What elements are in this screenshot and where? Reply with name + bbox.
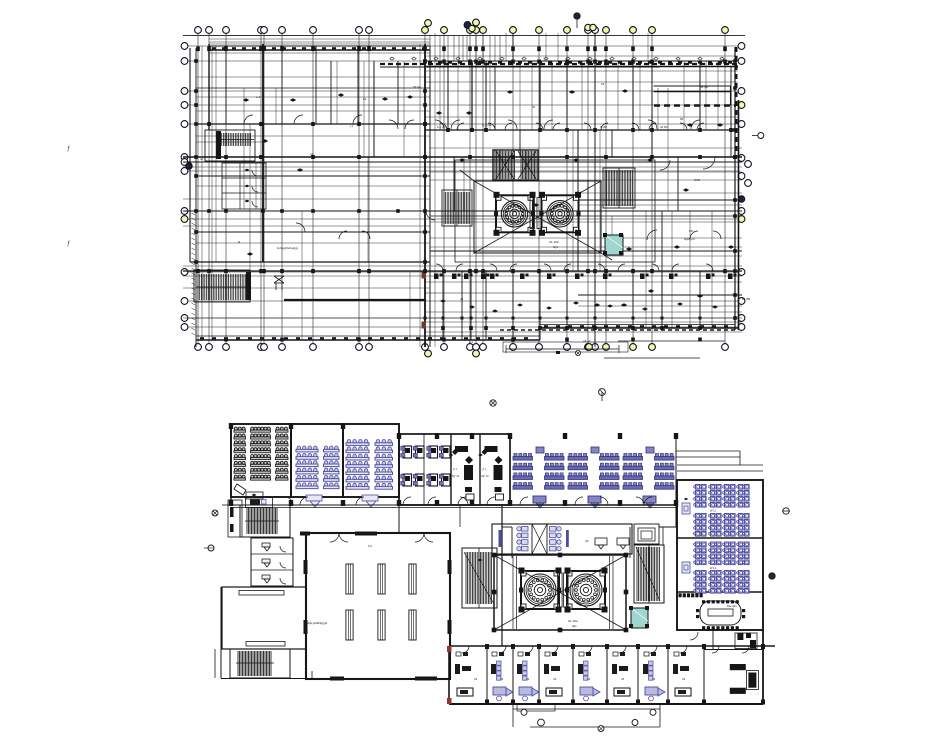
bottom office furniture (455, 652, 691, 701)
svg-text:q1: q1 (310, 152, 314, 156)
isolated survey symbol mid-left (490, 400, 496, 406)
top plan group (181, 13, 764, 358)
lecture hall seat rows (234, 427, 288, 480)
right wing rooms outline (676, 434, 763, 630)
classroom B outline (343, 424, 399, 497)
svg-text:c2: c2 (200, 157, 203, 161)
central escalator block (493, 150, 538, 180)
dashed infill wall corridor (500, 329, 738, 331)
upper-left annex rooms (222, 424, 273, 532)
top plan outer and main walls (190, 44, 739, 347)
svg-text:ksMgk·jp9M4g(g)d: ksMgk·jp9M4g(g)d (304, 621, 328, 625)
dashed window wall right edge vertical (736, 47, 738, 156)
bottom stair east of atrium (634, 545, 664, 603)
svg-text:q5 j60: q5 j60 (660, 125, 668, 129)
stair S4 atrium east (603, 168, 635, 208)
top plan interior horizontal walls (183, 67, 742, 318)
conference back seat row (679, 593, 703, 597)
bottom atrium frame verticals (513, 556, 613, 629)
teal shaft bottom plan (629, 606, 649, 628)
atrium rectangle with cross (460, 170, 612, 260)
bottom atrium rect with cross (492, 553, 629, 633)
classroom D desks (568, 447, 619, 508)
top plan south wing room partitions (183, 266, 742, 340)
svg-text:W 12: W 12 (710, 566, 717, 570)
classroom A outline (291, 424, 343, 497)
svg-text:9g1: 9g1 (572, 624, 577, 628)
svg-text:ƒ: ƒ (67, 146, 70, 152)
svg-text:p9 q2: p9 q2 (583, 339, 591, 343)
porch below offices (513, 704, 660, 732)
left annex room with benches (222, 587, 306, 649)
svg-text:jƒ·1: jƒ·1 (452, 468, 458, 471)
svg-text:x8: x8 (460, 297, 464, 301)
classroom A teacher desk (306, 495, 322, 507)
big hall tables (346, 564, 416, 640)
funnel symbol left wing (274, 276, 284, 290)
svg-text:t5 j60: t5 j60 (600, 125, 607, 129)
south wing fixtures row (422, 272, 737, 329)
svg-text:b8 j40: b8 j40 (700, 85, 709, 89)
svg-text:Uß: Uß (526, 678, 530, 681)
top symbol marker (574, 13, 580, 19)
svg-text:a·1: a·1 (256, 95, 261, 99)
svg-text:W/M: W/M (694, 178, 701, 182)
classroom E desks (623, 447, 674, 508)
classroom A benches (296, 446, 339, 489)
svg-text:6gMg·m: 6gMg·m (684, 237, 696, 241)
svg-text:A1 18a: A1 18a (568, 619, 578, 623)
door arcs top plan (244, 115, 721, 240)
stair S3 atrium west (442, 190, 472, 226)
svg-text:b5: b5 (532, 105, 536, 109)
classroom B teacher desk (362, 495, 378, 507)
section marker mid (599, 389, 606, 396)
svg-text:Uß: Uß (621, 678, 625, 681)
svg-text:Uß: Uß (474, 678, 478, 681)
lecture hall outline (231, 424, 291, 497)
svg-text:A1 18a: A1 18a (549, 240, 559, 244)
top plan thin horizontal grid lines (187, 46, 740, 327)
svg-text:j·1: j·1 (349, 124, 354, 128)
svg-text:kvGggNvbog(g): kvGggNvbog(g) (277, 246, 298, 250)
bottom atrium medallion east (565, 568, 608, 613)
dashed window wall right wing (654, 104, 736, 106)
toilet core bottom plan (492, 524, 632, 554)
svg-text:b·d: b·d (368, 544, 372, 548)
top plan north wing room partitions (425, 67, 738, 130)
office strip manager rooms (449, 446, 504, 500)
top plan interior vertical walls (226, 33, 731, 347)
top plan grid bubbles right column (738, 43, 751, 331)
entrance canopy verticals (430, 36, 500, 62)
right lower office suite (704, 650, 763, 694)
svg-text:Uß: Uß (587, 678, 591, 681)
right side survey symbols bottom plan (783, 508, 789, 514)
svg-text:b·g j40: b·g j40 (437, 125, 446, 129)
svg-text:Kll²: Kll² (689, 229, 693, 233)
bottom office partitions (485, 644, 765, 705)
svg-text:b5 90: b5 90 (413, 85, 421, 89)
stair S1 top-left (205, 130, 255, 161)
upper right office suite (677, 613, 763, 646)
top plan grid bubbles left column (181, 43, 192, 331)
svg-text:Uß: Uß (682, 678, 686, 681)
tiny text labels top plan (200, 59, 751, 344)
medallion link plates (530, 198, 542, 229)
svg-text:jƒ·1: jƒ·1 (482, 468, 488, 471)
door arcs bottom wing corridor (231, 497, 676, 508)
svg-text:Uß: Uß (553, 678, 557, 681)
svg-text:b6: b6 (601, 82, 605, 86)
bottom plan group (204, 423, 790, 732)
bottom stair west of atrium (462, 548, 497, 608)
svg-text:b9u·q9u: b9u·q9u (727, 604, 737, 608)
bridge to right wing (676, 451, 740, 465)
svg-text:b7 j89: b7 j89 (742, 297, 751, 301)
top wing wall blocks bottom plan (229, 423, 678, 506)
upper-left annex stair (228, 500, 290, 537)
svg-text:ƒ: ƒ (67, 241, 70, 247)
svg-text:Uß: Uß (652, 678, 656, 681)
top plan thin vertical grid lines (198, 34, 725, 345)
left wall hatch (192, 213, 196, 335)
svg-text:b¿5 j40: b¿5 j40 (482, 123, 492, 127)
conference room oval table (696, 600, 745, 629)
top plan minor grid lines (183, 33, 745, 347)
svg-text:b8: b8 (680, 117, 684, 121)
corridor walls center bottom plan (399, 480, 677, 646)
svg-text:p·o: p·o (469, 340, 473, 344)
big hall outline (300, 532, 452, 681)
top plan grid bubbles top row (195, 19, 729, 33)
wall tick marks top plan (200, 47, 732, 339)
dashed infill wall north wing (380, 63, 740, 65)
bottom office door arcs (462, 646, 749, 653)
right wing room1 printer (682, 498, 690, 514)
left annex toilets (251, 538, 293, 586)
dimension bracket below top plan (503, 341, 725, 358)
svg-text:9g1: 9g1 (553, 245, 558, 249)
teal shaft top plan (603, 233, 623, 255)
svg-text:8g°·12: 8g°·12 (452, 475, 460, 478)
svg-text:b2: b2 (363, 97, 367, 101)
svg-text:8g°·12: 8g°·12 (482, 475, 490, 478)
top plan door arcs north wing (440, 123, 704, 130)
diamond tags top plan (243, 89, 734, 307)
wall column blocks top plan (194, 47, 737, 342)
svg-text:W 12: W 12 (710, 509, 717, 513)
office strip PC desks (401, 446, 450, 486)
svg-text:Uß: Uß (500, 678, 504, 681)
bottom atrium medallion west (519, 568, 562, 613)
svg-text:[ƒ9: [ƒ9 (585, 539, 589, 543)
annex survey symbols (212, 510, 218, 516)
toilet block left wing (222, 163, 266, 209)
column medallion top-plan west (494, 192, 536, 236)
atrium outer boundary (455, 160, 655, 262)
stair S2 left lower (194, 270, 251, 302)
small dot tags on north wall (390, 57, 724, 60)
anteroom fixtures (690, 630, 757, 650)
svg-text:j9: j9 (237, 240, 241, 244)
column medallion top-plan east (539, 192, 581, 236)
elevator shafts bottom plan (634, 524, 659, 544)
top plan perimeter thin line top (183, 35, 745, 37)
left annex stair (215, 587, 312, 679)
classroom B benches (346, 439, 393, 489)
right wing room1 seats (694, 485, 749, 537)
lecture hall podium (246, 492, 263, 499)
office strip west of big classrooms (399, 434, 510, 505)
right wing room2 seats (694, 542, 749, 593)
datum symbol right side (758, 133, 764, 139)
bottom medallion link plates (558, 573, 569, 607)
svg-text:h2: h2 (720, 59, 724, 63)
top plan door arcs south wing (436, 264, 713, 271)
classroom C desks (513, 447, 564, 508)
bottom office wing outline (447, 630, 775, 704)
top plan grid bubbles bottom row (195, 344, 729, 357)
right wing room2 printer (682, 562, 690, 573)
